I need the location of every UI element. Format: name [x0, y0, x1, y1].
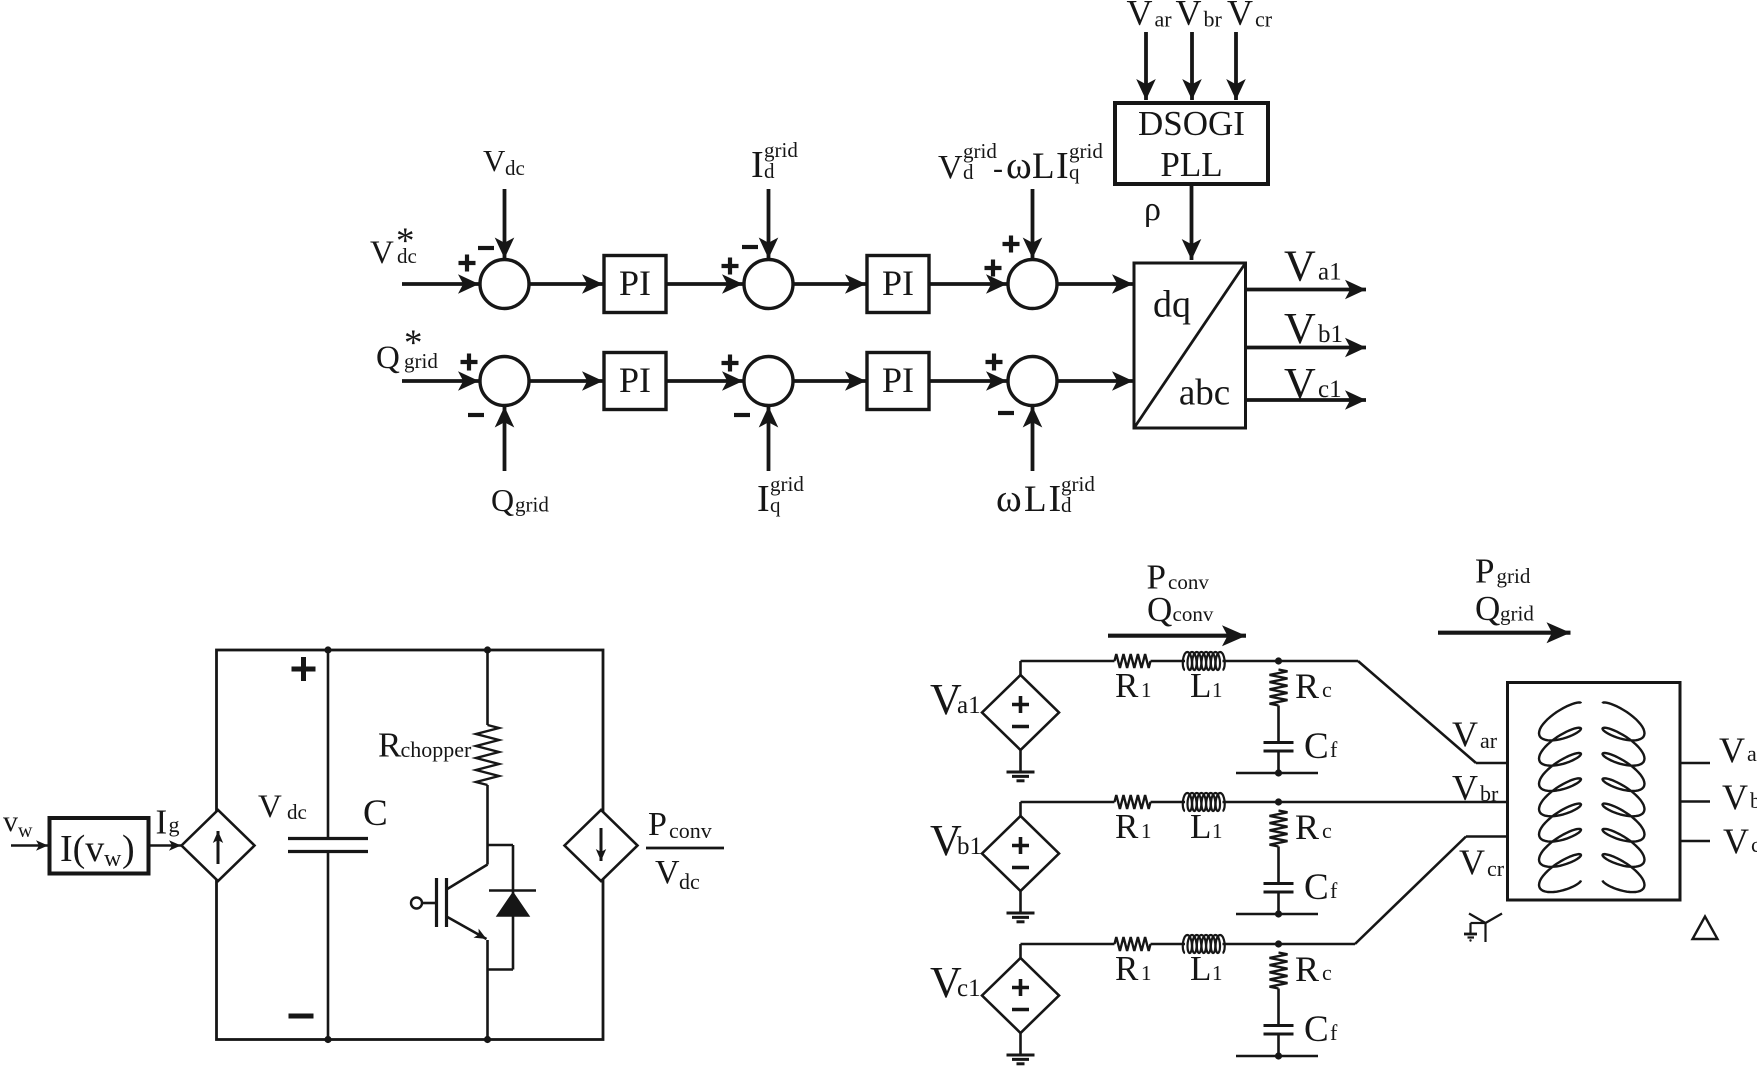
svg-text:dc: dc [287, 800, 307, 824]
svg-text:conv: conv [1173, 602, 1214, 626]
svg-text:P: P [1475, 552, 1494, 591]
svg-text:f: f [1330, 1020, 1338, 1045]
svg-text:V: V [1284, 242, 1316, 291]
svg-text:ρ: ρ [1144, 191, 1161, 228]
svg-text:PI: PI [619, 360, 651, 400]
svg-text:C: C [1304, 726, 1329, 767]
svg-text:c1: c1 [1318, 376, 1342, 403]
svg-text:V: V [1284, 304, 1316, 353]
svg-text:PLL: PLL [1160, 145, 1222, 184]
svg-text:c: c [1322, 677, 1332, 702]
svg-text:c: c [1322, 818, 1332, 843]
svg-text:I: I [757, 478, 770, 520]
svg-text:PI: PI [619, 263, 651, 303]
svg-text:V: V [1176, 0, 1202, 33]
svg-text:V: V [1284, 359, 1316, 408]
svg-text:grid: grid [1061, 472, 1095, 496]
svg-text:V: V [370, 235, 394, 271]
svg-text:V: V [1452, 768, 1478, 808]
svg-text:L: L [1032, 146, 1055, 187]
svg-text:DSOGI: DSOGI [1138, 104, 1245, 143]
svg-text:R: R [1115, 807, 1139, 846]
svg-text:C: C [363, 793, 388, 834]
svg-text:a: a [1747, 741, 1757, 766]
svg-text:grid: grid [515, 493, 549, 517]
svg-text:a1: a1 [957, 692, 981, 719]
svg-text:R: R [378, 726, 402, 765]
svg-text:C: C [1304, 1009, 1329, 1050]
svg-text:a1: a1 [1318, 259, 1342, 286]
svg-text:ar: ar [1480, 728, 1498, 753]
svg-text:b: b [1750, 788, 1757, 813]
svg-text:grid: grid [1497, 564, 1531, 588]
svg-text:1: 1 [1141, 961, 1152, 985]
svg-text:br: br [1204, 7, 1223, 32]
svg-text:Q: Q [1147, 590, 1172, 629]
svg-text:c1: c1 [957, 975, 981, 1002]
svg-text:R: R [1115, 949, 1139, 988]
svg-text:V: V [938, 149, 963, 186]
svg-text:I: I [156, 803, 168, 842]
svg-text:f: f [1330, 737, 1338, 762]
svg-text:ω: ω [996, 477, 1022, 520]
svg-text:P: P [648, 806, 667, 843]
svg-text:R: R [1295, 666, 1319, 706]
svg-text:): ) [122, 828, 135, 870]
svg-text:grid: grid [404, 349, 438, 373]
svg-text:1: 1 [1141, 819, 1152, 843]
svg-text:b1: b1 [1318, 321, 1343, 348]
svg-text:I(v: I(v [60, 828, 104, 870]
svg-text:g: g [169, 812, 180, 837]
svg-text:V: V [1452, 714, 1478, 754]
svg-text:1: 1 [1141, 678, 1152, 702]
svg-text:w: w [104, 846, 122, 872]
svg-text:w: w [18, 820, 33, 842]
svg-text:V: V [483, 143, 506, 178]
svg-text:c: c [1751, 832, 1757, 857]
svg-text:dc: dc [505, 156, 525, 180]
svg-text:Q: Q [1475, 589, 1500, 628]
svg-text:V: V [1227, 0, 1253, 33]
svg-text:1: 1 [1212, 678, 1223, 702]
svg-text:V: V [655, 854, 680, 891]
svg-text:d: d [1061, 493, 1072, 517]
svg-text:dc: dc [679, 869, 700, 894]
svg-text:v: v [3, 805, 18, 838]
svg-text:1: 1 [1212, 961, 1223, 985]
svg-text:f: f [1330, 878, 1338, 903]
svg-text:V: V [1127, 0, 1153, 33]
svg-text:dq: dq [1153, 284, 1191, 326]
svg-text:ar: ar [1155, 7, 1173, 32]
svg-text:c: c [1322, 960, 1332, 985]
svg-text:V: V [258, 789, 282, 825]
svg-text:V: V [1719, 730, 1745, 770]
svg-text:cr: cr [1255, 7, 1273, 32]
svg-text:d: d [764, 159, 775, 183]
svg-text:L: L [1024, 479, 1047, 520]
svg-text:b1: b1 [957, 833, 982, 860]
svg-text:chopper: chopper [401, 737, 473, 762]
svg-text:V: V [1459, 842, 1485, 882]
svg-text:-: - [993, 152, 1003, 185]
svg-text:abc: abc [1179, 373, 1230, 414]
svg-text:conv: conv [1168, 570, 1209, 594]
svg-text:L: L [1190, 666, 1211, 705]
svg-text:PI: PI [882, 360, 914, 400]
svg-text:d: d [963, 160, 974, 184]
svg-text:I: I [751, 144, 764, 186]
svg-text:R: R [1115, 666, 1139, 705]
svg-text:Q: Q [491, 482, 514, 518]
svg-text:V: V [1723, 821, 1749, 861]
svg-text:L: L [1190, 949, 1211, 988]
svg-text:V: V [1722, 777, 1748, 817]
svg-text:PI: PI [882, 263, 914, 303]
svg-text:Q: Q [376, 340, 400, 376]
svg-text:R: R [1295, 949, 1319, 989]
svg-text:I: I [1056, 145, 1069, 187]
svg-text:C: C [1304, 867, 1329, 908]
svg-text:L: L [1190, 807, 1211, 846]
svg-text:ω: ω [1006, 144, 1032, 187]
svg-text:1: 1 [1212, 819, 1223, 843]
svg-text:grid: grid [1500, 602, 1534, 626]
svg-text:br: br [1480, 781, 1499, 806]
svg-text:q: q [1069, 160, 1080, 184]
svg-text:grid: grid [1069, 139, 1103, 163]
svg-text:R: R [1295, 807, 1319, 847]
svg-text:I: I [1049, 478, 1062, 520]
svg-text:conv: conv [669, 818, 712, 843]
svg-text:cr: cr [1487, 856, 1505, 881]
svg-text:q: q [770, 493, 781, 517]
svg-text:dc: dc [397, 244, 417, 268]
